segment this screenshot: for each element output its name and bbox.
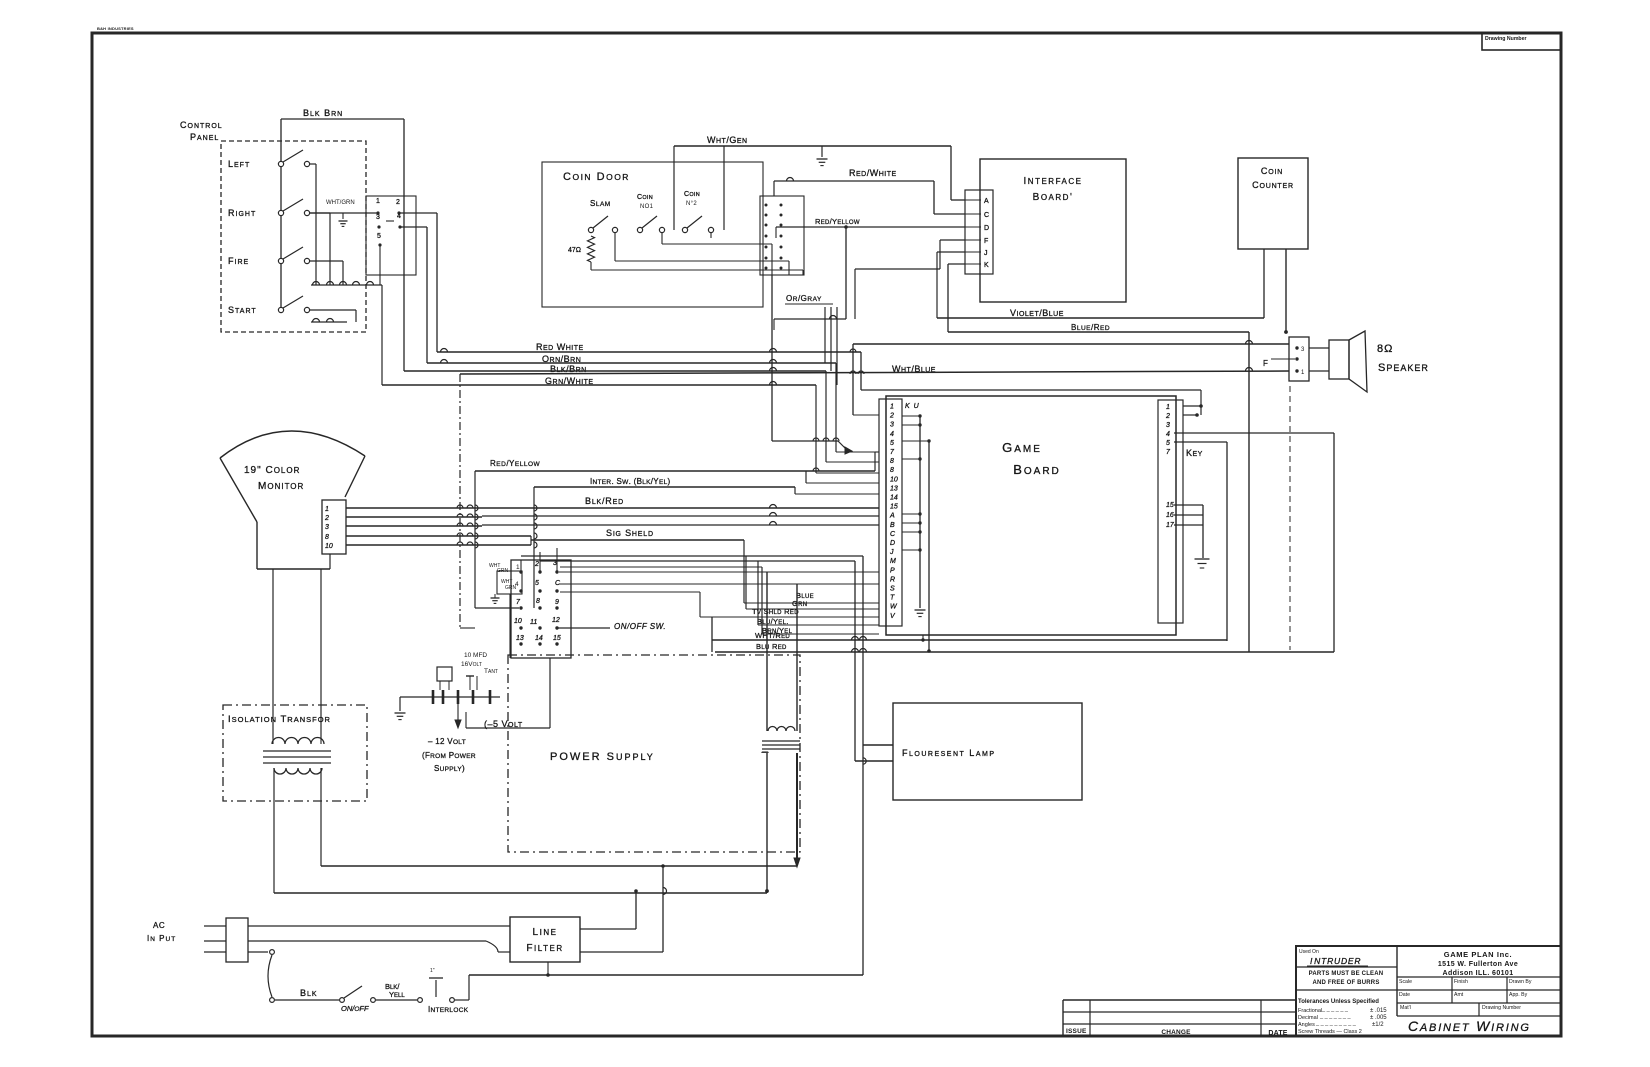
svg-text:T: T: [890, 595, 895, 602]
svg-text:C: C: [984, 212, 989, 219]
svg-text:AND FREE OF BURRS: AND FREE OF BURRS: [1312, 980, 1379, 986]
svg-text:INTRUDER: INTRUDER: [1310, 956, 1361, 966]
svg-text:14: 14: [535, 635, 543, 642]
svg-text:8: 8: [536, 598, 540, 605]
svg-text:Mat'l: Mat'l: [1400, 1005, 1411, 1011]
svg-text:± .015: ± .015: [1370, 1008, 1387, 1014]
svg-text:COIN: COIN: [637, 194, 653, 201]
svg-text:Addison ILL. 60101: Addison ILL. 60101: [1443, 970, 1514, 977]
svg-text:AC: AC: [153, 921, 165, 930]
svg-text:Amt: Amt: [1454, 992, 1464, 998]
svg-text:M: M: [890, 558, 896, 565]
svg-text:POWER SUPPLY: POWER SUPPLY: [550, 751, 655, 763]
svg-text:App. By: App. By: [1509, 992, 1528, 998]
svg-text:12: 12: [552, 617, 560, 624]
svg-text:K U: K U: [905, 403, 920, 410]
svg-text:15: 15: [1166, 502, 1174, 509]
svg-text:19" COLOR: 19" COLOR: [244, 465, 300, 476]
svg-text:3: 3: [1166, 422, 1170, 429]
svg-text:SLAM: SLAM: [590, 199, 611, 208]
svg-text:±1/2: ±1/2: [1372, 1022, 1384, 1028]
svg-text:INTERFACE: INTERFACE: [1024, 176, 1083, 187]
svg-text:4: 4: [397, 213, 401, 220]
svg-text:13: 13: [890, 485, 898, 492]
svg-text:1: 1: [890, 404, 894, 411]
svg-text:F: F: [984, 238, 988, 245]
svg-text:2: 2: [396, 199, 400, 206]
svg-text:10: 10: [890, 476, 898, 483]
svg-text:GRN: GRN: [497, 568, 509, 574]
svg-text:Drawn By: Drawn By: [1509, 979, 1532, 985]
svg-text:IN PUT: IN PUT: [147, 934, 176, 943]
svg-text:_ _ _ _ _ _ _: _ _ _ _ _ _ _: [1319, 1014, 1352, 1020]
svg-text:1: 1: [325, 506, 329, 513]
svg-text:TANT: TANT: [484, 668, 498, 675]
svg-text:A: A: [984, 198, 989, 205]
svg-text:INTER. SW. (BLK/YEL): INTER. SW. (BLK/YEL): [590, 477, 671, 486]
svg-text:K: K: [984, 262, 989, 269]
svg-text:INTERLOCK: INTERLOCK: [428, 1005, 469, 1014]
svg-text:NO1: NO1: [640, 204, 654, 210]
svg-text:P: P: [890, 567, 895, 574]
svg-text:BLUE/RED: BLUE/RED: [1071, 323, 1110, 332]
svg-text:D: D: [984, 225, 989, 232]
svg-text:B&H INDUSTRIES: B&H INDUSTRIES: [97, 26, 134, 31]
svg-text:– 12 VOLT: – 12 VOLT: [428, 737, 466, 746]
svg-text:14: 14: [890, 495, 898, 502]
svg-text:A: A: [889, 513, 895, 520]
svg-text:1: 1: [376, 198, 380, 205]
svg-text:SPEAKER: SPEAKER: [1378, 362, 1429, 374]
svg-text:2: 2: [1165, 413, 1170, 420]
svg-text:ISOLATION TRANSFOR: ISOLATION TRANSFOR: [228, 714, 331, 725]
svg-text:5: 5: [535, 580, 539, 587]
svg-text:Finish: Finish: [1454, 979, 1468, 985]
svg-text:2: 2: [324, 515, 329, 522]
svg-text:10: 10: [325, 543, 333, 550]
svg-text:Drawing Number: Drawing Number: [1482, 1005, 1521, 1011]
svg-text:N°2: N°2: [686, 201, 697, 207]
svg-text:ON/OFF SW.: ON/OFF SW.: [614, 622, 666, 631]
svg-text:13: 13: [516, 635, 524, 642]
svg-text:S: S: [890, 586, 895, 593]
svg-text:15: 15: [553, 635, 561, 642]
svg-text:9: 9: [555, 599, 559, 606]
svg-text:8: 8: [890, 458, 894, 465]
svg-text:J: J: [889, 549, 894, 556]
svg-text:5: 5: [1166, 440, 1170, 447]
svg-text:4: 4: [1166, 431, 1170, 438]
svg-text:8: 8: [325, 534, 329, 541]
svg-text:DATE: DATE: [1268, 1030, 1287, 1037]
svg-text:J: J: [984, 250, 988, 257]
svg-text:Drawing Number: Drawing Number: [1485, 36, 1527, 42]
svg-text:2: 2: [534, 561, 539, 568]
svg-text:F: F: [1263, 359, 1268, 368]
svg-text:3: 3: [325, 524, 329, 531]
svg-text:Scale: Scale: [1399, 979, 1412, 985]
svg-text:OR/GRAY: OR/GRAY: [786, 294, 822, 303]
svg-text:3: 3: [376, 214, 380, 221]
svg-text:ISSUE: ISSUE: [1066, 1028, 1087, 1035]
svg-text:8: 8: [890, 467, 894, 474]
svg-text:R: R: [890, 576, 895, 583]
svg-text:5: 5: [890, 440, 894, 447]
svg-text:16: 16: [1166, 512, 1174, 519]
svg-text:Screw Threads — Class 2: Screw Threads — Class 2: [1298, 1029, 1362, 1035]
svg-text:4: 4: [515, 581, 519, 588]
svg-text:15: 15: [890, 504, 898, 511]
svg-text:17: 17: [1166, 522, 1175, 529]
svg-text:D: D: [890, 540, 895, 547]
svg-text:_ _ _ _ _ _: _ _ _ _ _ _: [1321, 1007, 1349, 1013]
svg-text:10: 10: [514, 618, 522, 625]
svg-text:Fractional: Fractional: [1298, 1008, 1322, 1014]
svg-text:B: B: [890, 522, 895, 529]
svg-text:BOARD': BOARD': [1033, 192, 1074, 203]
svg-text:(FROM POWER: (FROM POWER: [422, 751, 476, 760]
svg-text:3: 3: [890, 422, 894, 429]
svg-text:ON/OFF: ON/OFF: [341, 1004, 369, 1013]
svg-text:1": 1": [430, 968, 435, 974]
svg-text:COIN: COIN: [684, 191, 700, 198]
svg-text:11: 11: [530, 619, 537, 626]
svg-text:WHT/GRN: WHT/GRN: [326, 200, 355, 206]
svg-text:CHANGE: CHANGE: [1161, 1029, 1191, 1036]
svg-text:SUPPLY): SUPPLY): [434, 764, 465, 773]
svg-text:PARTS MUST BE CLEAN: PARTS MUST BE CLEAN: [1309, 971, 1384, 977]
svg-text:47Ω: 47Ω: [568, 247, 581, 254]
svg-text:1515 W. Fullerton Ave: 1515 W. Fullerton Ave: [1438, 961, 1518, 968]
svg-text:8Ω: 8Ω: [1377, 343, 1393, 355]
svg-text:2: 2: [889, 413, 894, 420]
svg-text:RED/YELLOW: RED/YELLOW: [490, 459, 540, 468]
svg-text:COIN DOOR: COIN DOOR: [563, 171, 630, 183]
svg-text:FILTER: FILTER: [526, 943, 563, 954]
svg-text:± .005: ± .005: [1370, 1015, 1387, 1021]
svg-text:5: 5: [377, 233, 381, 240]
svg-text:GAME PLAN Inc.: GAME PLAN Inc.: [1444, 950, 1512, 959]
svg-text:Used On: Used On: [1299, 949, 1319, 955]
svg-text:Decimal: Decimal: [1298, 1015, 1318, 1021]
svg-text:Date: Date: [1399, 992, 1410, 998]
svg-text:MONITOR: MONITOR: [258, 481, 304, 492]
svg-text:10 MFD: 10 MFD: [464, 652, 487, 659]
svg-text:Tolerances Unless Specified: Tolerances Unless Specified: [1298, 999, 1379, 1005]
svg-text:_ _ _ _ _ _ _ _ _: _ _ _ _ _ _ _ _ _: [1315, 1021, 1357, 1027]
svg-text:LINE: LINE: [533, 927, 558, 938]
svg-text:1: 1: [516, 564, 520, 571]
svg-text:Angles: Angles: [1298, 1022, 1315, 1028]
svg-text:4: 4: [890, 431, 894, 438]
svg-text:1: 1: [1166, 404, 1170, 411]
svg-text:16VOLT: 16VOLT: [461, 661, 482, 668]
